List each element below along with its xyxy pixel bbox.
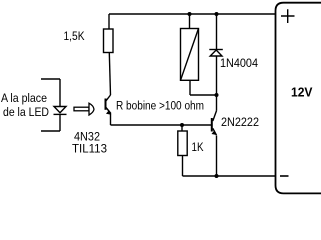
- wire 1K bottom: [182, 156, 184, 177]
- wire top rail: [109, 13, 276, 15]
- wire opto emitter down: [110, 113, 112, 126]
- resistor R1 1,5K body: [104, 29, 114, 53]
- resistor R2 1K body: [178, 131, 187, 156]
- opto U1 base bar: [105, 99, 107, 110]
- wire coil top stub: [189, 14, 191, 29]
- LED D2 cathode bar: [54, 113, 67, 115]
- transistor Q1 emitter arrowhead: [212, 130, 217, 135]
- LED D2 triangle: [54, 107, 66, 113]
- wire diode anode down: [216, 56, 218, 95]
- transistor Q1 base bar: [211, 118, 213, 132]
- transistor Q1 collector diagonal: [213, 111, 217, 121]
- svg-text:1K: 1K: [192, 140, 205, 154]
- LED bracket bottom: [41, 114, 60, 131]
- junction node emitter / rail: [215, 174, 219, 178]
- transistor Q1 emitter diagonal: [213, 128, 217, 135]
- wire coil bottom horizontal: [190, 94, 217, 96]
- wire 1K top stub: [181, 125, 183, 131]
- diode D1 cathode bar: [209, 49, 223, 51]
- battery plus sign: [281, 9, 295, 23]
- light arrow shaft: [74, 107, 89, 111]
- wire base line to Q1: [111, 124, 212, 126]
- svg-text:2N2222: 2N2222: [221, 115, 259, 129]
- wire bottom rail: [183, 175, 276, 177]
- wire coil bottom stub: [189, 80, 191, 95]
- svg-text:R bobine >100 ohm: R bobine >100 ohm: [116, 99, 204, 113]
- battery 12V box outline: [276, 3, 321, 194]
- svg-text:12V: 12V: [291, 86, 313, 100]
- wire emitter vertical Q1: [216, 136, 218, 177]
- battery minus sign: [280, 175, 289, 177]
- junction node coil bottom / collector: [215, 93, 219, 97]
- wire R1 top stub: [108, 14, 110, 29]
- relay coil K1 body: [181, 29, 199, 81]
- svg-text:TIL113: TIL113: [72, 142, 107, 156]
- diode D1 triangle: [210, 50, 222, 56]
- light arrow head: [89, 103, 94, 115]
- junction node base / 1K: [180, 123, 184, 127]
- junction node coil top: [188, 12, 192, 16]
- svg-text:1,5K: 1,5K: [64, 29, 86, 43]
- LED bracket top: [41, 79, 60, 107]
- wire R1 bottom to opto collector: [109, 53, 110, 96]
- relay coil K1 diagonal: [181, 29, 199, 81]
- opto U1 collector diagonal: [106, 95, 111, 101]
- wire collector vertical: [216, 95, 218, 111]
- svg-text:1N4004: 1N4004: [220, 56, 258, 70]
- junction node diode top: [215, 12, 219, 16]
- opto U1 emitter arrowhead: [106, 110, 111, 115]
- svg-text:de la LED: de la LED: [3, 105, 49, 119]
- opto U1 emitter diagonal: [106, 108, 111, 114]
- svg-text:A la place: A la place: [1, 91, 47, 105]
- wire diode vertical top: [216, 14, 218, 50]
